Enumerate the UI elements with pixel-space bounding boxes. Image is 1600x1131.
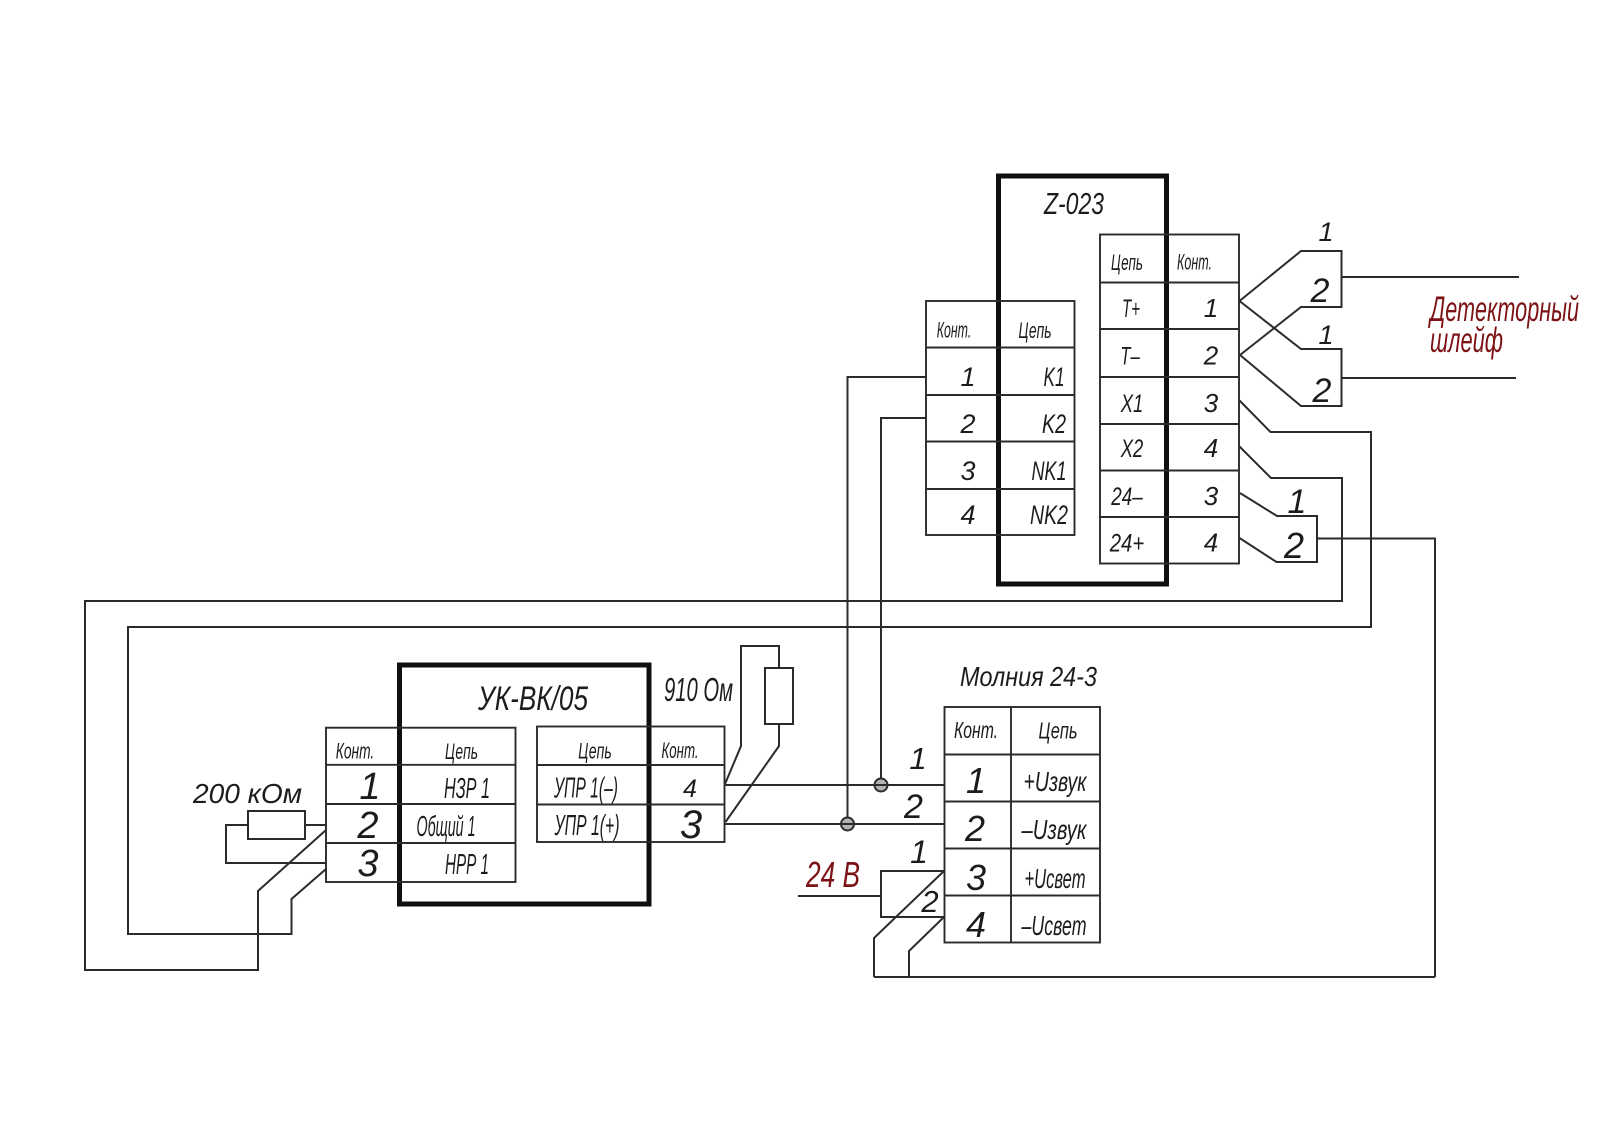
svg-text:T–: T– [1120,343,1140,371]
svg-text:4: 4 [966,904,986,945]
svg-text:3: 3 [357,843,378,885]
svg-text:200 кОм: 200 кОм [192,778,302,809]
wire 24 В input [798,895,881,897]
connector detector loop upper (pins 1,2) [1240,217,1342,355]
svg-text:Цепь: Цепь [445,739,478,764]
svg-text:4: 4 [1204,528,1218,558]
terminal table УК-ВК left (НЗР 1, Общий 1, НРР 1) [326,728,516,885]
svg-text:T+: T+ [1122,295,1140,323]
svg-text:2: 2 [1283,525,1304,566]
wire K1 to УПР 1(+) [848,377,927,824]
svg-text:NK2: NK2 [1030,500,1068,530]
svg-text:2: 2 [903,788,923,826]
svg-text:NK1: NK1 [1032,456,1067,486]
svg-text:24–: 24– [1110,483,1143,511]
svg-text:1: 1 [1288,483,1307,521]
svg-text:4: 4 [683,775,697,803]
wire detector loop lower [1342,377,1517,379]
svg-text:1: 1 [1204,293,1218,323]
svg-text:Конт.: Конт. [336,739,375,764]
svg-text:2: 2 [964,808,985,849]
svg-text:1: 1 [960,362,975,392]
svg-text:24+: 24+ [1109,530,1144,558]
svg-text:X1: X1 [1120,390,1143,418]
label Детекторный шлейф [1428,290,1579,360]
svg-text:910 Ом: 910 Ом [664,671,733,708]
svg-text:Цепь: Цепь [1039,718,1078,744]
svg-text:X2: X2 [1120,435,1143,463]
svg-text:3: 3 [680,803,702,847]
svg-text:УПР 1(–): УПР 1(–) [553,773,618,805]
svg-text:3: 3 [1204,388,1219,418]
svg-text:1: 1 [359,766,380,808]
label wire 1 at Молния [909,741,926,776]
wire X2 to Общий 1 [85,446,1342,970]
wire 24+ connector to bottom bus [1317,539,1435,978]
junction dot K1/УПР1(+) [841,818,854,831]
svg-text:2: 2 [959,409,975,439]
svg-text:Конт.: Конт. [662,738,699,763]
svg-text:4: 4 [960,500,975,530]
svg-text:3: 3 [966,857,986,898]
svg-text:Z-023: Z-023 [1043,186,1104,221]
svg-text:K1: K1 [1044,362,1065,392]
svg-text:НРР 1: НРР 1 [445,849,489,881]
svg-text:Цепь: Цепь [578,739,611,764]
connector 24 В input (pins 1,2) [874,834,944,977]
svg-text:УПР 1(+): УПР 1(+) [554,810,620,842]
terminal table Z-023 right (T+,T-,X1,X2,24-,24+) [1100,235,1239,564]
svg-text:1: 1 [1318,320,1333,350]
svg-text:3: 3 [1204,481,1219,511]
svg-text:2: 2 [920,884,938,919]
terminal table УК-ВК right (УПР 1(-), УПР 1(+)) [537,727,725,848]
svg-text:+Uзвук: +Uзвук [1024,766,1088,797]
svg-text:–Uсвет: –Uсвет [1021,910,1087,941]
svg-text:Цепь: Цепь [1019,318,1052,343]
wire УПР 1(-) to Молния конт.1 [725,784,945,786]
svg-text:Конт.: Конт. [1177,250,1212,275]
svg-text:2: 2 [1312,372,1332,410]
svg-text:–Uзвук: –Uзвук [1021,814,1088,845]
bottom bus wire to 24+ [874,976,1435,978]
svg-text:4: 4 [1204,433,1218,463]
svg-text:1: 1 [910,834,928,870]
wire УПР 1(+) to Молния конт.2 [725,823,945,825]
svg-text:+Uсвет: +Uсвет [1025,863,1086,894]
connector 24V supply output (pins 1,2) [1240,483,1318,566]
wire X1 to НРР 1 [128,400,1371,934]
svg-text:Цепь: Цепь [1111,250,1143,275]
svg-text:1: 1 [1318,217,1333,247]
device block Z-023 [999,176,1167,584]
device Молния 24-3 [945,661,1101,945]
resistor 200 кОм [192,778,326,863]
svg-text:шлейф: шлейф [1430,321,1503,360]
connector detector loop lower (pins 1,2) [1240,301,1342,410]
svg-text:2: 2 [1310,272,1330,310]
terminal table Z-023 left (K1,K2,NK1,NK2) [926,301,1075,535]
junction dot K2/УПР1(-) [875,779,888,792]
resistor 910 Ом [664,646,793,822]
svg-text:Общий 1: Общий 1 [417,811,476,843]
svg-text:УК-ВК/05: УК-ВК/05 [477,680,588,718]
svg-text:1: 1 [966,760,986,801]
svg-text:Конт.: Конт. [937,318,972,343]
svg-text:Молния 24-3: Молния 24-3 [960,661,1097,692]
wire detector loop upper [1342,276,1520,278]
svg-text:2: 2 [356,805,378,847]
svg-text:НЗР 1: НЗР 1 [444,773,490,805]
svg-text:2: 2 [1203,341,1219,371]
wire K2 to УПР 1(-) [881,418,926,785]
svg-text:K2: K2 [1042,409,1066,439]
label wire 2 at Молния [903,788,923,826]
svg-text:3: 3 [960,456,975,486]
label 24 В [805,854,860,895]
svg-text:Конт.: Конт. [954,717,998,743]
svg-text:24 В: 24 В [805,854,860,895]
svg-text:1: 1 [909,741,926,776]
device block УК-ВК/05 [400,665,650,904]
